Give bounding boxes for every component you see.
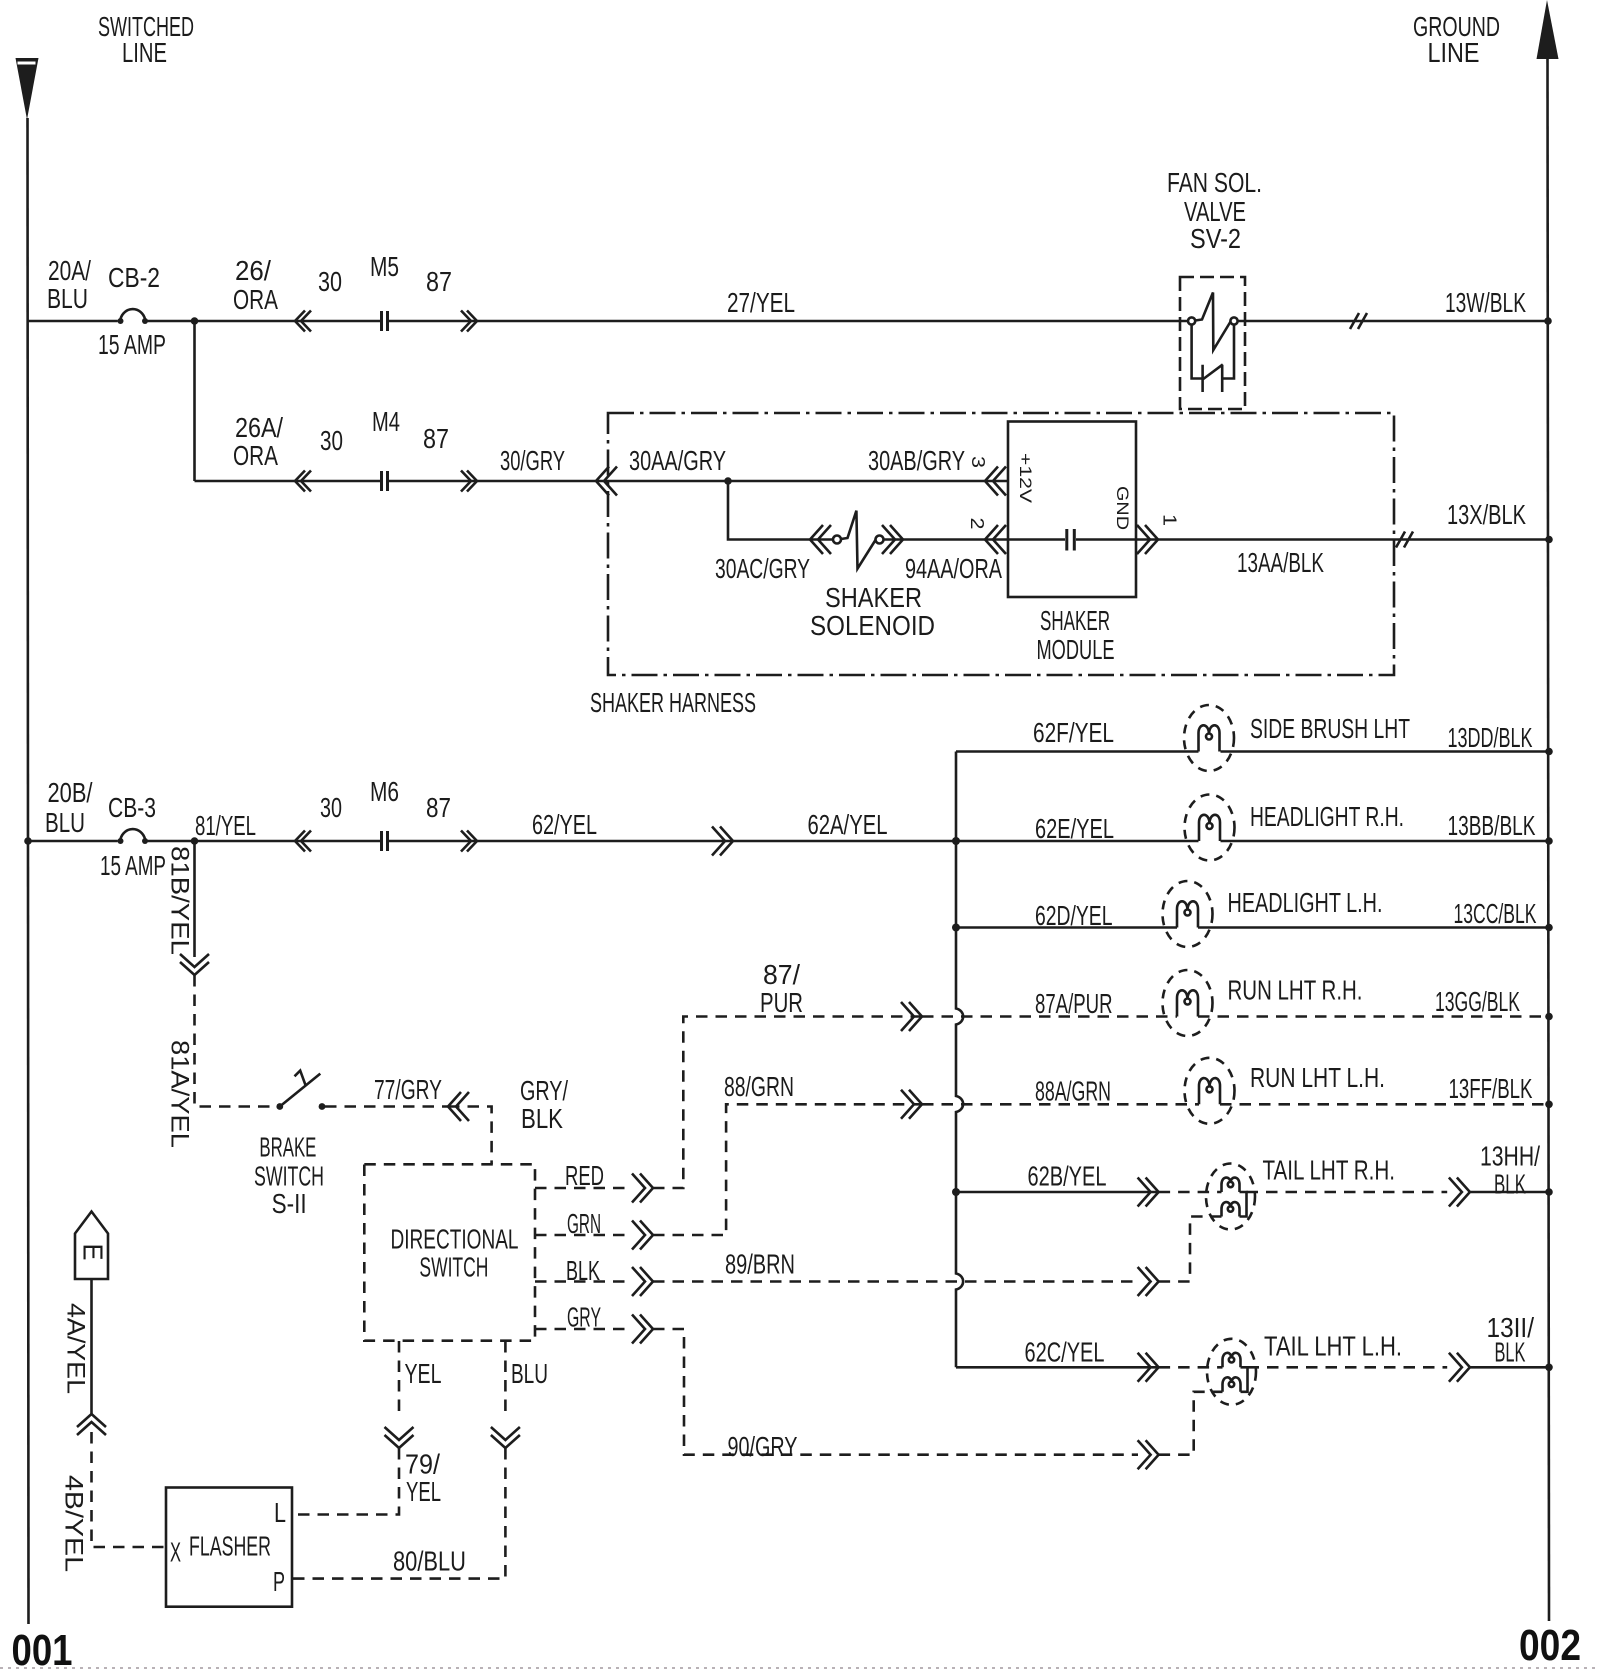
svg-text:GRN: GRN (567, 1208, 601, 1239)
lamp run LHT LH (1185, 1058, 1235, 1124)
svg-text:94AA/ORA: 94AA/ORA (905, 553, 1002, 584)
wire 20B/BLU row3 left (28, 840, 118, 843)
connector BLU down (491, 1427, 520, 1448)
wire 4B/YEL dashed (92, 1432, 167, 1547)
svg-text:SHAKER HARNESS: SHAKER HARNESS (590, 687, 756, 718)
brake switch S-11 (276, 1071, 325, 1110)
svg-text:FLASHER: FLASHER (189, 1531, 271, 1562)
svg-text:YEL: YEL (405, 1358, 442, 1389)
connector 62B/YEL male (1138, 1178, 1159, 1207)
wire 89/BRN to tail lamp RH (1159, 1217, 1213, 1282)
svg-text:FAN SOL.: FAN SOL. (1167, 167, 1262, 198)
svg-text:M5: M5 (370, 251, 399, 282)
svg-text:30AA/GRY: 30AA/GRY (629, 445, 726, 476)
svg-text:M6: M6 (370, 776, 399, 807)
wire 87A/PUR run lht RH (922, 1015, 1549, 1018)
svg-text:SV-2: SV-2 (1190, 223, 1241, 254)
label wire 26/ORA (233, 255, 278, 315)
wire 90/GRY dashed (653, 1329, 1138, 1455)
wire 62E/YEL headlight RH (1221, 840, 1550, 843)
wire 20A/BLU row1 left (28, 320, 118, 323)
svg-text:62B/YEL: 62B/YEL (1028, 1161, 1107, 1192)
solenoid valve SV-2 (1180, 277, 1245, 409)
connector pin 2 shaker module (985, 525, 1006, 554)
lamp tail LHT RH (1206, 1164, 1255, 1230)
shaker harness boundary box (608, 413, 1394, 675)
wire 13HH/BLK dashed (1247, 1191, 1448, 1194)
svg-text:62E/YEL: 62E/YEL (1035, 813, 1114, 844)
svg-text:GRY: GRY (567, 1302, 601, 1333)
circuit breaker CB-3 (118, 829, 149, 844)
node junction 81/YEL (191, 837, 199, 845)
svg-text:1: 1 (1160, 514, 1180, 526)
connector 89/BRN male (1138, 1267, 1159, 1296)
node 13GG/BLK (1545, 1013, 1553, 1021)
wire 62D/YEL headlight LH (956, 926, 1549, 929)
svg-text:30AB/GRY: 30AB/GRY (868, 445, 965, 476)
connector M5 (382, 311, 388, 331)
label wire 87/PUR (760, 959, 803, 1018)
svg-text:HEADLIGHT L.H.: HEADLIGHT L.H. (1228, 887, 1383, 918)
node 13HH/BLK (1545, 1188, 1553, 1196)
E terminal flag (75, 1212, 108, 1280)
svg-text:P: P (273, 1566, 285, 1597)
svg-text:BLK: BLK (1495, 1337, 1526, 1368)
lamp side brush LHT (1184, 705, 1234, 771)
flasher box (166, 1488, 292, 1607)
wire YEL dashed (398, 1341, 401, 1419)
svg-text:001: 001 (12, 1626, 73, 1671)
connector 77/GRY female (448, 1092, 469, 1121)
svg-text:81B/YEL: 81B/YEL (166, 846, 194, 955)
svg-text:BLU: BLU (47, 283, 88, 314)
wire GRY pin stub (535, 1328, 630, 1331)
svg-text:SHAKER: SHAKER (825, 582, 922, 613)
wire GRN pin stub (535, 1234, 630, 1237)
label FAN SOL. VALVE SV-2 (1167, 167, 1262, 254)
node 13FF/BLK (1545, 1101, 1553, 1109)
svg-text:X: X (170, 1537, 181, 1568)
wire switched line bus (left vertical) (28, 118, 29, 1624)
svg-text:88/GRN: 88/GRN (724, 1071, 794, 1102)
connector GRY male (632, 1315, 653, 1344)
svg-text:002: 002 (1519, 1621, 1581, 1670)
node row2 at ground bus (1545, 536, 1553, 544)
svg-text:SHAKER: SHAKER (1040, 605, 1110, 636)
svg-text:27/YEL: 27/YEL (727, 287, 795, 318)
wire 77/GRY dashed (325, 1105, 448, 1108)
label wire 13HH/BLK (1480, 1141, 1540, 1200)
connector 62C/YEL male (1138, 1353, 1159, 1382)
wire branch to row2 (193, 321, 196, 481)
svg-text:+12V: +12V (1016, 453, 1035, 504)
node ground line label (1413, 11, 1500, 68)
svg-text:TAIL LHT L.H.: TAIL LHT L.H. (1264, 1331, 1402, 1362)
svg-text:M4: M4 (372, 406, 400, 437)
wire 26A/ORA row2 (195, 480, 1009, 483)
svg-text:88A/GRN: 88A/GRN (1035, 1076, 1111, 1107)
label SHAKER MODULE (1037, 605, 1115, 665)
lamp headlight RH (1185, 795, 1235, 861)
svg-text:81A/YEL: 81A/YEL (166, 1040, 194, 1148)
svg-text:GRY/: GRY/ (520, 1075, 568, 1106)
connector RED male (632, 1174, 653, 1203)
connector 87 male row1 (461, 311, 477, 332)
connector 62A/YEL male (712, 827, 733, 856)
wire BLU dashed (504, 1341, 507, 1419)
connector GRN male (632, 1221, 653, 1250)
shaker solenoid (810, 511, 903, 569)
svg-text:62D/YEL: 62D/YEL (1035, 900, 1113, 931)
svg-text:20B/: 20B/ (48, 777, 93, 808)
wire 13W/BLK (1238, 320, 1549, 323)
svg-text:ORA: ORA (233, 440, 278, 471)
wire 13X/BLK splice mark (1396, 532, 1413, 548)
wire GRY/BLK dashed (448, 1107, 492, 1165)
svg-text:2: 2 (967, 518, 987, 530)
node 62A/YEL at lamp bus (952, 837, 960, 845)
wire 88A/GRN run lht LH (922, 1103, 1549, 1106)
wire 88/GRN dashed (653, 1104, 922, 1235)
svg-text:RUN LHT R.H.: RUN LHT R.H. (1228, 975, 1363, 1006)
node junction 62B/YEL (952, 1188, 960, 1196)
svg-text:62/YEL: 62/YEL (532, 809, 597, 840)
wire 87/PUR dashed (653, 1017, 922, 1189)
svg-text:4B/YEL: 4B/YEL (60, 1475, 88, 1572)
lamp run LHT RH (1163, 970, 1213, 1036)
connector 13II/BLK male (1449, 1353, 1470, 1382)
svg-text:15 AMP: 15 AMP (100, 850, 166, 881)
svg-text:87: 87 (426, 266, 452, 297)
wire lamp bus vertical with hops (956, 752, 963, 1368)
svg-text:26/: 26/ (235, 255, 271, 286)
capacitor inside shaker module (1008, 529, 1136, 551)
wire 13HH/BLK solid (1470, 1191, 1549, 1194)
label BRAKE SWITCH S-11 (254, 1132, 324, 1219)
label wire 20A/BLU (47, 255, 91, 314)
svg-text:62F/YEL: 62F/YEL (1033, 717, 1114, 748)
connector 87 male row3 (461, 831, 477, 852)
svg-text:3: 3 (968, 456, 988, 468)
svg-text:13X/BLK: 13X/BLK (1447, 499, 1526, 530)
connector 4A/YEL up (77, 1414, 106, 1435)
wire 4A/YEL (90, 1279, 93, 1414)
ground symbol (1537, 0, 1559, 59)
wire 81/YEL 62/YEL (148, 840, 1199, 843)
svg-text:30: 30 (320, 792, 342, 823)
directional switch box (364, 1164, 535, 1340)
svg-text:30: 30 (320, 425, 343, 456)
node 13BB/BLK (1545, 837, 1553, 845)
node 13CC/BLK (1545, 924, 1553, 932)
svg-text:BLK: BLK (521, 1103, 563, 1134)
wire 13AA/BLK 13X/BLK (1136, 538, 1549, 541)
node switched line label (98, 11, 194, 68)
svg-text:SWITCH: SWITCH (254, 1161, 324, 1192)
wire ground line bus (right vertical) (1548, 59, 1550, 1621)
connector YEL down (385, 1427, 414, 1448)
svg-text:62C/YEL: 62C/YEL (1025, 1337, 1105, 1368)
svg-text:87: 87 (426, 792, 451, 823)
label wire 26A/ORA (233, 412, 283, 471)
wire 81B/YEL (193, 841, 196, 957)
svg-text:87: 87 (423, 423, 449, 454)
wire 62B/YEL dashed to lamp (1159, 1191, 1222, 1194)
svg-text:CB-3: CB-3 (108, 792, 156, 823)
svg-text:87/: 87/ (763, 959, 800, 990)
label SHAKER SOLENOID (810, 582, 935, 641)
page edge dotted (0, 1667, 1600, 1669)
svg-text:79/: 79/ (405, 1449, 440, 1480)
label DIRECTIONAL SWITCH (391, 1224, 519, 1283)
connector 81B/YEL down (180, 954, 209, 975)
svg-text:77/GRY: 77/GRY (374, 1074, 442, 1105)
connector 30 female row3 (295, 831, 311, 852)
wire 79/YEL dashed (292, 1448, 399, 1515)
connector 30 female row2 (295, 471, 311, 492)
svg-text:SOLENOID: SOLENOID (810, 610, 935, 641)
svg-text:HEADLIGHT R.H.: HEADLIGHT R.H. (1250, 801, 1404, 832)
svg-text:GND: GND (1113, 486, 1132, 530)
connector 30 female row1 (295, 311, 311, 332)
svg-text:BRAKE: BRAKE (259, 1132, 316, 1163)
svg-text:ORA: ORA (233, 284, 278, 315)
wire 90/GRY to tail lamp LH (1159, 1392, 1214, 1455)
svg-text:90/GRY: 90/GRY (728, 1431, 798, 1462)
svg-text:89/BRN: 89/BRN (725, 1249, 795, 1280)
svg-text:62A/YEL: 62A/YEL (808, 809, 888, 840)
label wire GRY/BLK (520, 1075, 568, 1134)
svg-text:13FF/BLK: 13FF/BLK (1449, 1073, 1533, 1104)
connector 87A/PUR male (901, 1002, 922, 1031)
node 13DD/BLK (1545, 748, 1553, 756)
switched line flag (16, 58, 39, 120)
label wire 13II/BLK (1487, 1312, 1535, 1368)
shaker module box U1 (1008, 422, 1136, 598)
node 13II/BLK (1545, 1364, 1553, 1372)
lamp tail LHT LH (1207, 1339, 1256, 1405)
svg-text:YEL: YEL (406, 1476, 441, 1507)
wire BLK pin stub (535, 1280, 630, 1283)
svg-text:BLU: BLU (511, 1358, 548, 1389)
wire 13II/BLK dashed (1248, 1366, 1448, 1369)
svg-text:13AA/BLK: 13AA/BLK (1237, 547, 1324, 578)
svg-text:BLK: BLK (1494, 1169, 1526, 1200)
svg-text:BLK: BLK (566, 1255, 600, 1286)
lamp headlight LH (1163, 881, 1213, 947)
svg-text:PUR: PUR (760, 987, 803, 1018)
svg-text:SWITCH: SWITCH (419, 1251, 488, 1282)
label wire 20B/BLU (45, 777, 93, 838)
svg-text:MODULE: MODULE (1037, 634, 1115, 665)
label wire 79/YEL (405, 1449, 441, 1508)
wire branch 30AC/GRY (728, 481, 833, 540)
svg-text:DIRECTIONAL: DIRECTIONAL (391, 1224, 519, 1255)
svg-text:SIDE BRUSH LHT: SIDE BRUSH LHT (1250, 713, 1410, 744)
wire RED pin stub (535, 1187, 630, 1190)
svg-text:81/YEL: 81/YEL (195, 810, 256, 841)
svg-text:20A/: 20A/ (48, 255, 91, 286)
svg-text:30AC/GRY: 30AC/GRY (715, 553, 810, 584)
wire 62F/YEL side brush (956, 750, 1549, 753)
circuit breaker CB-2 (118, 309, 149, 324)
svg-text:26A/: 26A/ (235, 412, 283, 443)
connector 90/GRY male (1138, 1440, 1159, 1469)
svg-text:30: 30 (318, 266, 342, 297)
connector 13HH/BLK male (1449, 1178, 1470, 1207)
node row3 at switched bus (24, 837, 32, 845)
svg-text:CB-2: CB-2 (108, 262, 160, 293)
svg-text:30/GRY: 30/GRY (500, 445, 565, 476)
wire 62C/YEL (956, 1366, 1159, 1369)
svg-text:BLU: BLU (45, 807, 85, 838)
svg-text:RED: RED (565, 1160, 604, 1191)
wire 13W/BLK splice mark (1350, 313, 1367, 329)
node junction 30AA/GRY (724, 477, 732, 485)
wire 89/BRN dashed (653, 1280, 1138, 1283)
svg-text:13W/BLK: 13W/BLK (1445, 287, 1526, 318)
wire 62B/YEL (956, 1191, 1159, 1194)
connector pin 3 shaker module (985, 467, 1006, 496)
connector BLK male (632, 1267, 653, 1296)
node row1 at ground bus (1544, 317, 1552, 325)
connector harness 30/GRY female (596, 467, 617, 496)
svg-text:LINE: LINE (1428, 37, 1480, 68)
svg-text:13DD/BLK: 13DD/BLK (1448, 722, 1533, 753)
svg-text:13HH/: 13HH/ (1480, 1141, 1540, 1172)
svg-text:4A/YEL: 4A/YEL (62, 1303, 90, 1394)
node junction 62D/YEL (952, 924, 960, 932)
wire 62C/YEL dashed to lamp (1159, 1366, 1223, 1369)
svg-text:RUN LHT L.H.: RUN LHT L.H. (1250, 1062, 1385, 1093)
connector 88A/GRN male (901, 1090, 922, 1119)
wire 26/ORA (148, 320, 1189, 323)
svg-text:E: E (78, 1244, 109, 1261)
svg-text:13CC/BLK: 13CC/BLK (1454, 898, 1537, 929)
wire 81A/YEL dashed (195, 975, 277, 1107)
connector 87 male row2 (461, 471, 477, 492)
svg-text:13BB/BLK: 13BB/BLK (1448, 810, 1536, 841)
wire 94AA/ORA (884, 538, 1009, 541)
wire 13II/BLK solid (1470, 1366, 1549, 1369)
svg-text:LINE: LINE (122, 37, 167, 68)
wire 80/BLU dashed (292, 1448, 505, 1579)
svg-text:L: L (274, 1497, 286, 1528)
svg-text:87A/PUR: 87A/PUR (1035, 988, 1113, 1019)
svg-text:TAIL LHT R.H.: TAIL LHT R.H. (1263, 1155, 1396, 1186)
svg-text:80/BLU: 80/BLU (393, 1546, 466, 1577)
connector pin 1 shaker module (1137, 525, 1158, 554)
node junction row1 (191, 317, 199, 325)
svg-text:15 AMP: 15 AMP (98, 329, 166, 360)
connector M6 (382, 831, 388, 851)
svg-text:13GG/BLK: 13GG/BLK (1435, 986, 1520, 1017)
connector M4 (382, 471, 388, 491)
svg-text:S-II: S-II (272, 1188, 307, 1219)
